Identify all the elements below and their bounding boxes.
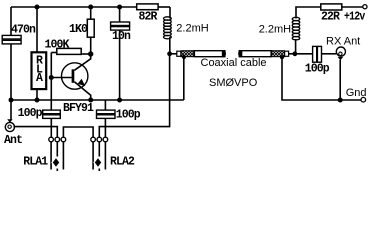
svg-text:100p: 100p — [18, 107, 43, 120]
svg-text:RLA2: RLA2 — [110, 156, 135, 169]
svg-text:Gnd: Gnd — [346, 87, 367, 99]
svg-text:2.2mH: 2.2mH — [259, 23, 291, 35]
svg-text:Ant: Ant — [4, 134, 22, 147]
svg-text:100p: 100p — [305, 63, 330, 76]
svg-text:A: A — [36, 72, 43, 85]
svg-text:1K0: 1K0 — [69, 23, 88, 36]
svg-text:100K: 100K — [45, 38, 70, 51]
svg-text:22R: 22R — [321, 11, 340, 24]
svg-text:BFY91: BFY91 — [63, 102, 94, 115]
svg-text:2.2mH: 2.2mH — [176, 23, 208, 35]
svg-text:470n: 470n — [11, 24, 36, 37]
svg-text:RLA1: RLA1 — [23, 156, 48, 169]
svg-text:RX Ant: RX Ant — [326, 36, 360, 48]
svg-text:Coaxial cable: Coaxial cable — [201, 57, 267, 69]
svg-text:+12v: +12v — [344, 11, 365, 24]
svg-text:82R: 82R — [139, 11, 158, 24]
svg-text:100p: 100p — [116, 109, 141, 122]
svg-text:10n: 10n — [112, 30, 131, 43]
svg-text:SMØVPO: SMØVPO — [209, 77, 258, 89]
